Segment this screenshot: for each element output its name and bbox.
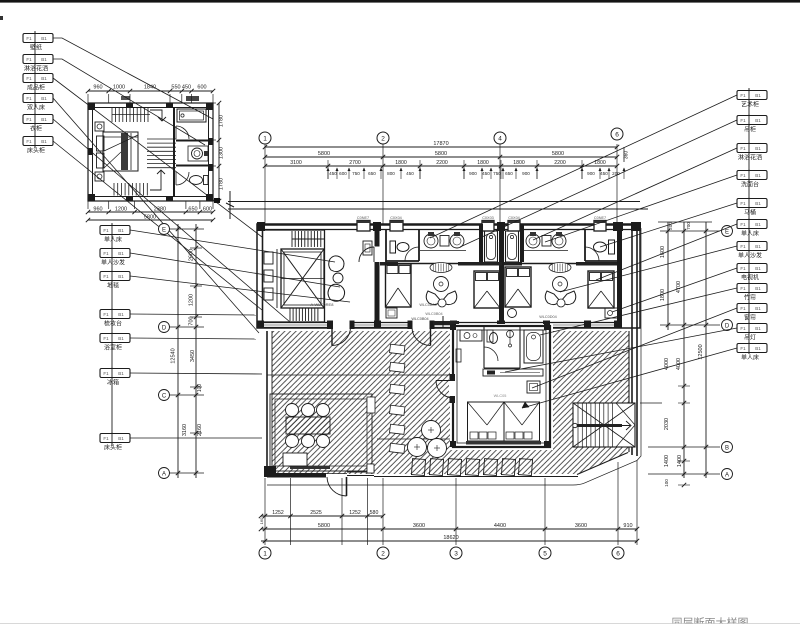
bottom wall window strip [347,471,374,473]
long section line upper [228,201,640,203]
svg-text:冰箱: 冰箱 [107,379,119,387]
bottom wall posts [257,321,264,329]
stairs upper run [111,108,113,123]
leader from tag 成品柜 [53,78,262,237]
room1 toilet [397,243,409,252]
svg-text:壁纸: 壁纸 [30,44,42,52]
room1 basin right [450,234,464,248]
svg-text:F1: F1 [740,306,746,311]
wash basin small plan [188,146,208,161]
material tag right 吊灯 [737,324,767,333]
svg-text:B1: B1 [41,36,47,41]
svg-text:同层断面大样图: 同层断面大样图 [672,616,749,624]
material tag right 艺术柜 [737,91,767,100]
bed dark runner [121,133,128,170]
rooms bottom wall window lines [257,322,622,324]
svg-text:F1: F1 [103,436,109,441]
svg-text:马桶: 马桶 [744,209,756,217]
dining chairs bottom [286,435,299,448]
leader from tag 床头柜 [53,141,262,310]
svg-text:床头柜: 床头柜 [27,147,45,155]
right end small dim 360 [623,147,625,162]
svg-text:360: 360 [624,151,630,160]
svg-text:浴室柜: 浴室柜 [104,344,122,352]
small plan corner columns [88,103,95,110]
bedroom stool [527,381,540,393]
svg-text:F1: F1 [103,336,109,341]
material tag 梳妆台 [100,310,130,319]
left edge mark [0,16,3,20]
left room armchair upper [329,256,344,272]
bottom wall notch box [367,468,374,474]
room1 bed left [386,264,412,307]
svg-text:2: 2 [381,136,385,143]
svg-text:F1: F1 [26,76,32,81]
planter column [390,344,405,354]
svg-text:C0NE7: C0NE7 [357,216,369,220]
left grid tick row [158,326,204,328]
svg-text:1800: 1800 [477,160,489,166]
svg-text:450: 450 [182,85,191,91]
small plan outer walls [88,103,213,201]
material tag right 电视机 [737,264,767,273]
svg-text:窗帘: 窗帘 [744,314,756,322]
top dim witness lines [264,144,266,224]
bottom grid bubble 2 [377,547,389,559]
svg-text:B1: B1 [118,371,124,376]
svg-text:900: 900 [522,171,530,176]
sun loungers bottom row [411,459,425,476]
grid bubble E left [159,224,170,235]
material tag 单人床 [100,226,130,235]
svg-text:1800: 1800 [395,160,407,166]
bath pendant sink [507,331,514,338]
svg-text:床头柜: 床头柜 [104,444,122,452]
svg-text:750: 750 [352,171,360,176]
svg-text:F1: F1 [740,346,746,351]
svg-text:B1: B1 [755,201,761,206]
grid bubble E right [722,226,733,237]
svg-text:1400: 1400 [664,455,670,467]
room2 wc door [585,247,599,261]
room2 bed left [505,267,531,307]
svg-text:1780: 1780 [219,178,225,190]
svg-text:竹帘: 竹帘 [744,294,756,302]
svg-text:1200: 1200 [189,294,195,306]
svg-text:1: 1 [263,551,267,558]
left dimension vertical line outer [195,224,197,478]
material tag right 单人床 [737,344,767,353]
svg-text:单人床: 单人床 [741,354,759,362]
top dim grid bubble 4 [494,132,506,144]
room1 basin left [424,234,438,248]
svg-text:650: 650 [505,171,513,176]
svg-text:F1: F1 [103,251,109,256]
small plan double bed [103,132,138,171]
stair top tick stub [640,402,662,404]
leader from tag 双人床 [53,98,259,333]
svg-text:B1: B1 [755,173,761,178]
material tag 淋浴花洒 [23,55,53,64]
room2 round table [553,277,568,292]
bath cabinet top-left [460,330,482,341]
svg-text:吊灯: 吊灯 [744,334,756,342]
grid bubble A left [159,468,170,479]
svg-text:成品柜: 成品柜 [27,84,45,92]
room2 mirror box [542,236,551,247]
bottom wall door gaps [333,321,350,329]
svg-text:F1: F1 [103,312,109,317]
bath tub vertical [524,330,543,363]
svg-text:F1: F1 [103,228,109,233]
bottom grid bubble 6 [612,547,624,559]
svg-text:单人床: 单人床 [741,230,759,238]
terrace hatch area [272,331,629,474]
svg-text:2525: 2525 [310,510,322,516]
right tick row [660,230,720,232]
svg-text:B1: B1 [755,222,761,227]
svg-text:C0NE7: C0NE7 [594,216,606,220]
svg-text:2160: 2160 [197,424,203,436]
bottom dim chain total [261,540,637,542]
grid bubble B right [722,442,733,453]
core lower stair treads [289,309,291,322]
small plan top dimension chain [88,90,213,92]
leader from tag 壁纸 [53,38,213,119]
svg-text:5800: 5800 [435,151,447,157]
svg-text:B1: B1 [41,96,47,101]
room1 mirror box [440,236,449,247]
terrace bottom edge east [374,476,578,478]
svg-text:1780: 1780 [219,115,225,127]
top dim chain 17870 [265,146,617,148]
svg-text:F1: F1 [26,117,32,122]
bottom grid bubble 5 [539,547,551,559]
svg-text:18620: 18620 [443,535,458,541]
svg-text:B: B [725,446,729,452]
svg-text:2600: 2600 [189,249,195,261]
room1-2 party wall [499,224,504,328]
svg-text:D: D [725,324,730,330]
small plan window marks above top wall [121,96,130,100]
left room armchair lower [328,284,345,301]
stairs lower run [113,183,115,196]
leader lines from left tag column 2 [130,230,335,262]
svg-text:B1: B1 [755,93,761,98]
svg-text:600: 600 [339,171,347,176]
small plan mid wall columns [126,103,133,108]
material tag right 淋浴花洒 [737,144,767,153]
svg-text:F1: F1 [740,146,746,151]
bedroom bed left [468,402,505,441]
svg-text:6: 6 [615,132,619,139]
bath door upper [176,126,189,139]
outer boundary offset line [267,228,641,485]
svg-text:4: 4 [498,136,502,143]
svg-text:1800: 1800 [513,160,525,166]
room1 wc enclosure [385,230,387,262]
svg-text:F1: F1 [103,274,109,279]
svg-text:梳妆台: 梳妆台 [104,320,122,328]
svg-text:960: 960 [93,207,102,213]
toilet small plan [190,176,203,185]
terrace left wall [266,331,268,477]
round tables group [408,438,427,457]
room2 chair right [561,291,576,305]
terrace right wall [628,331,630,452]
right dim vertical 3 [705,222,707,478]
svg-text:450: 450 [600,171,608,176]
small plan right dimension chain [218,103,220,201]
long section line lower [228,208,648,210]
bottom dim chain small [261,515,383,517]
top wall posts dark [257,222,265,231]
top dim chain small fixture dims [327,168,329,179]
room1 bath-bed divider [380,263,502,265]
svg-text:B1: B1 [41,139,47,144]
room1 wc door [405,247,419,261]
bottom dim chain bays [261,528,637,530]
bottom grid bubble 1 [259,547,271,559]
svg-text:B1: B1 [755,286,761,291]
svg-text:3160: 3160 [182,424,188,436]
svg-text:1200: 1200 [115,207,127,213]
terrace bottom wall corner post [264,466,276,477]
svg-text:B1: B1 [118,251,124,256]
svg-text:C0X04: C0X04 [508,216,520,220]
right tick row low [648,473,720,475]
left room side table [333,273,343,283]
svg-text:C: C [162,394,167,400]
left room TV console [363,241,372,255]
stair-lift core outline [263,230,325,322]
svg-text:3600: 3600 [575,523,587,529]
right tick row low [648,446,720,448]
svg-text:B1: B1 [41,57,47,62]
svg-text:单人沙发: 单人沙发 [738,252,762,260]
left grid tick row [158,228,204,230]
svg-text:C0X03: C0X03 [482,216,494,220]
room1 bench bottom-left [386,308,397,318]
svg-text:电视机: 电视机 [741,274,759,282]
room1 round table [434,277,449,292]
svg-text:F1: F1 [740,93,746,98]
material tag 成品柜 [23,74,53,83]
svg-text:B1: B1 [755,266,761,271]
core door boxes [264,252,273,264]
svg-text:3: 3 [454,551,458,558]
grid bubble D right [722,320,733,331]
bathroom partition wall [173,108,175,197]
svg-text:580: 580 [370,510,379,516]
svg-text:单人床: 单人床 [104,236,122,244]
core upper stair treads [291,231,293,247]
svg-text:5800: 5800 [318,523,330,529]
svg-text:WLC0D04: WLC0D04 [539,315,557,319]
door sill at bottom wall [326,473,347,475]
room2 bathtub [506,231,519,262]
svg-text:F1: F1 [740,222,746,227]
room1 bathtub [485,231,498,262]
svg-text:F1: F1 [740,118,746,123]
room2 tub room wall [520,224,524,262]
svg-text:衣柜: 衣柜 [30,125,42,133]
bottom wall sill mark [433,321,459,325]
svg-text:2030: 2030 [664,418,670,430]
platform gate boxes [367,397,375,413]
svg-text:3600: 3600 [413,523,425,529]
bed pillows [97,136,105,151]
room2 chair left [545,291,560,305]
svg-text:B1: B1 [41,76,47,81]
svg-text:2700: 2700 [349,160,361,166]
svg-text:F1: F1 [103,371,109,376]
svg-text:A: A [162,472,166,478]
svg-text:洗面台: 洗面台 [741,181,759,189]
svg-text:A: A [725,473,729,479]
svg-text:B1: B1 [755,118,761,123]
svg-text:F1: F1 [740,326,746,331]
room2 stool circle bottom-left [508,309,517,318]
svg-text:5: 5 [543,551,547,558]
material tag right 洗面台 [737,171,767,180]
left tag column 2 spine [111,223,113,446]
svg-text:100: 100 [664,479,669,487]
leader from tag 衣柜 [53,119,290,322]
svg-text:B1: B1 [755,346,761,351]
material tag 衣柜 [23,115,53,124]
svg-text:3100: 3100 [290,160,302,166]
bedroom shelf counter [483,369,543,376]
left grid tick row [158,472,204,474]
right tag column spine [748,88,750,353]
svg-text:1252: 1252 [272,510,284,516]
svg-text:B1: B1 [118,274,124,279]
dining table [286,417,330,434]
bathtub small plan [177,109,206,122]
top wall posts white [357,221,370,232]
room2 wc enclosure [584,230,586,261]
svg-text:地毯: 地毯 [107,282,119,290]
svg-text:WLC05: WLC05 [494,394,507,398]
grid bubble C left [159,390,170,401]
svg-text:600: 600 [197,85,206,91]
svg-text:4700: 4700 [676,281,682,293]
nightstand upper [95,122,104,131]
dining platform border [270,394,372,471]
svg-text:F1: F1 [740,201,746,206]
svg-text:1600: 1600 [660,246,666,258]
bath door lower [176,172,189,185]
center bedroom door opening west [449,379,455,398]
svg-text:450: 450 [406,171,414,176]
terrace bevel corner [577,453,628,475]
bath toilet [487,330,493,342]
svg-text:1: 1 [263,136,267,143]
material tag right 竹帘 [737,284,767,293]
material tag 床头柜 [100,434,130,443]
center bedroom white base [450,324,553,450]
svg-text:910: 910 [623,523,632,529]
svg-text:2: 2 [381,551,385,558]
right dim vertical 2 [683,222,685,478]
grid bubble D left [159,322,170,333]
svg-text:650: 650 [368,171,376,176]
bottom door swing arc [327,477,347,496]
svg-text:B1: B1 [755,146,761,151]
room2 bed right [588,271,614,308]
svg-text:E: E [162,228,166,234]
bedroom wall posts [450,324,456,330]
dining chairs top [286,404,299,417]
top dim grid bubble 2 [377,132,389,144]
svg-text:淋浴花洒: 淋浴花洒 [24,65,48,73]
left tag column 1 spine [34,31,36,148]
roof stair block [573,403,635,447]
small plan bottom dimension chains [88,211,213,213]
svg-text:450: 450 [329,171,337,176]
svg-text:900: 900 [587,171,595,176]
right dim vertical 1 [667,222,669,330]
svg-text:F1: F1 [26,96,32,101]
svg-text:5800: 5800 [318,151,330,157]
stair center rail and arrow [573,424,622,427]
dining bench rect [283,453,307,466]
room1 bed right [474,271,500,308]
left room right wall [375,224,380,247]
svg-text:A-WLC0RE8: A-WLC0RE8 [311,302,335,307]
section line end square [214,198,220,203]
top dim chain 5800s [265,156,617,158]
svg-text:B1: B1 [755,326,761,331]
svg-text:C0X04: C0X04 [390,216,402,220]
svg-text:F1: F1 [740,266,746,271]
svg-text:D: D [162,326,167,332]
room1 chair right [442,291,457,305]
svg-text:F1: F1 [26,36,32,41]
bottom dim witness lines [264,478,266,545]
svg-text:800: 800 [387,171,395,176]
room2 bath-bed divider [502,263,622,265]
terrace zone line [377,438,453,440]
room2 vanity counter [524,250,568,252]
bottom grid bubble 3 [450,547,462,559]
svg-text:双人床: 双人床 [27,104,45,112]
room2 small stool [557,299,565,307]
svg-text:12540: 12540 [171,348,177,363]
material tag 单人沙发 [100,249,130,258]
svg-text:吊柜: 吊柜 [744,126,756,134]
svg-text:200: 200 [668,222,673,230]
room1 oval rug [430,263,452,273]
top black title bar [0,0,800,3]
svg-text:单人沙发: 单人沙发 [101,259,125,267]
svg-text:WLC0B04: WLC0B04 [425,312,442,316]
svg-text:B1: B1 [118,228,124,233]
top dim grid bubble 6 [611,128,623,140]
stair arrow upper [150,110,166,121]
stair arrow lower [150,170,165,190]
material tag right 单人床 [737,220,767,229]
section break vertical [229,191,231,219]
svg-text:17870: 17870 [433,141,448,147]
svg-text:700: 700 [189,316,195,325]
svg-text:F1: F1 [26,139,32,144]
svg-text:5800: 5800 [552,151,564,157]
bedroom headboard [466,441,541,445]
svg-text:1252: 1252 [349,510,361,516]
left room door [359,247,374,262]
